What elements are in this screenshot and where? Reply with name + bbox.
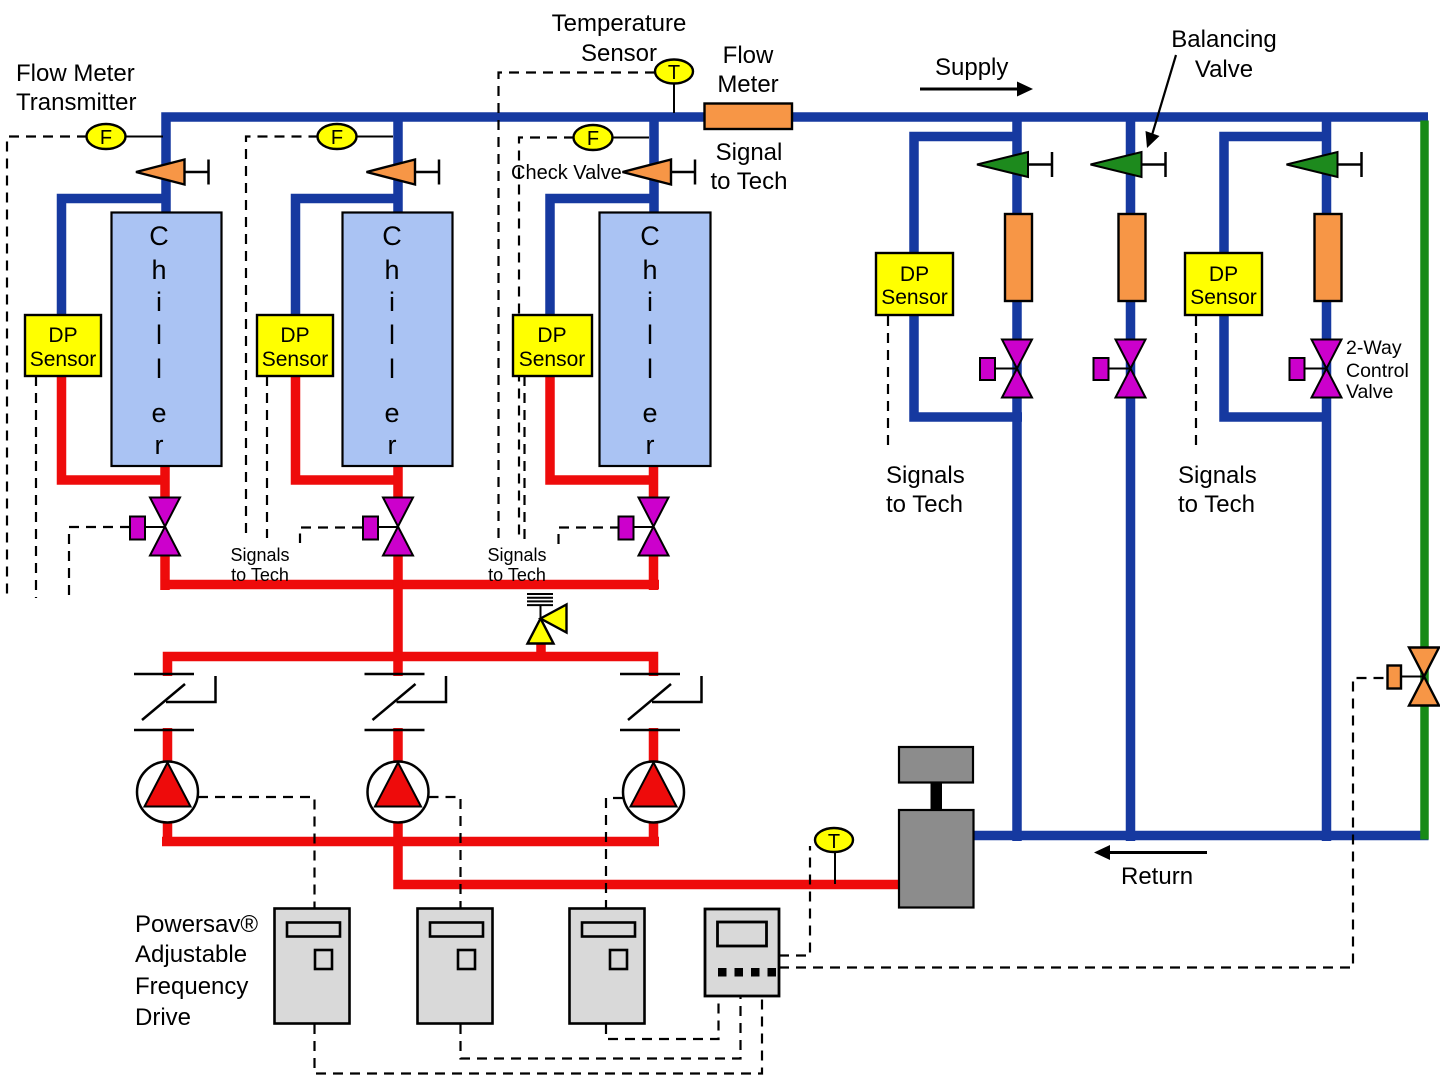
signal wire: AFD 3 to controller dashed xyxy=(606,996,719,1039)
wire: chilled water supply main (blue) with chiller 1 riser xyxy=(166,117,1428,214)
wire: relief valve stub (red) xyxy=(536,639,546,655)
svg-text:h: h xyxy=(151,255,166,285)
wire: chiller 3 DP sensor return drop (red) xyxy=(550,375,656,480)
svg-text:to Tech: to Tech xyxy=(488,565,546,585)
2-way control valve V4 (magenta, loop 1) xyxy=(980,340,1032,398)
svg-text:r: r xyxy=(388,430,397,460)
svg-text:Sensor: Sensor xyxy=(581,40,657,67)
svg-text:Signals: Signals xyxy=(230,545,289,565)
svg-text:C: C xyxy=(640,221,660,251)
check valve CV1 (orange, chiller 1 riser) xyxy=(136,160,209,185)
svg-text:to Tech: to Tech xyxy=(711,168,788,195)
svg-text:l: l xyxy=(647,320,653,350)
wire: valve 1 to upper manifold (red) xyxy=(160,553,170,590)
balancing valve BV3 (orange rect, loop 3) xyxy=(1315,214,1342,301)
supply flow arrow xyxy=(920,82,1033,97)
svg-text:F: F xyxy=(100,127,112,149)
balancing valve pointer arrow xyxy=(1146,55,1177,148)
svg-text:l: l xyxy=(156,354,162,384)
wire: chilled water return main (blue) xyxy=(973,831,1429,841)
signal wire: pump 2 to AFD 2 dashed xyxy=(429,797,461,908)
svg-text:h: h xyxy=(642,255,657,285)
wire: chiller 2 DP sensor return drop (red) xyxy=(296,375,401,480)
svg-text:T: T xyxy=(828,831,840,853)
flex connector FC2 (pump 2 isolation symbol) xyxy=(365,674,447,730)
svg-text:C: C xyxy=(382,221,402,251)
signal wire: flow transmitter F3 dashed xyxy=(519,138,574,537)
svg-text:Drive: Drive xyxy=(135,1004,191,1031)
wire: pump 3 suction stub (red) xyxy=(649,728,659,770)
control valve V1 (magenta, chiller 1 outlet) xyxy=(130,498,180,556)
svg-text:Frequency: Frequency xyxy=(135,973,248,1000)
wire: bypass pipe (green) xyxy=(1420,121,1429,840)
svg-text:Return: Return xyxy=(1121,863,1193,890)
signal wire: pump 1 to AFD 1 dashed xyxy=(198,797,315,908)
signal wire: controller to temperature sensor T2 dashed xyxy=(779,846,810,956)
check valve CV4 (green, loop 1) xyxy=(977,152,1052,177)
svg-text:Temperature: Temperature xyxy=(552,10,687,37)
wire: chiller 2 riser (blue) xyxy=(393,117,403,214)
wire: branch loop 1 vertical (blue) xyxy=(1012,117,1022,841)
AFD 3 (adjustable frequency drive box) xyxy=(570,909,645,1024)
svg-text:T: T xyxy=(668,62,680,84)
AFD 1 (adjustable frequency drive box) xyxy=(275,909,350,1024)
signal wire: right DP sensor 1 dashed xyxy=(887,316,889,448)
svg-text:e: e xyxy=(384,398,399,428)
svg-text:Check Valve: Check Valve xyxy=(511,162,622,184)
wire: DP sensing bypass loop 1 (blue) xyxy=(914,137,1022,418)
svg-text:Valve: Valve xyxy=(1346,381,1393,403)
balancing valve BV1 (orange rect, loop 1) xyxy=(1005,214,1032,301)
DP sensor 2 (yellow box) xyxy=(257,315,333,376)
wire: branch loop 2 vertical (blue) xyxy=(1126,117,1136,841)
chiller 1 (light blue box) xyxy=(112,213,222,467)
svg-text:Adjustable: Adjustable xyxy=(135,941,247,968)
2-way control valve V5 (magenta, loop 2) xyxy=(1094,340,1146,398)
svg-text:Balancing: Balancing xyxy=(1171,26,1276,53)
wire: branch loop 3 vertical (blue) xyxy=(1322,117,1332,841)
2-way control valve V6 (magenta, loop 3) xyxy=(1290,340,1342,398)
svg-text:to Tech: to Tech xyxy=(1178,491,1255,518)
DP sensor 4 (yellow box, loop 1) xyxy=(876,253,953,315)
wire: pump 3 discharge stub (red) xyxy=(649,815,659,842)
svg-text:Signals: Signals xyxy=(487,545,546,565)
svg-text:e: e xyxy=(642,398,657,428)
balancing valve BV2 (orange rect, loop 2) xyxy=(1119,214,1146,301)
temperature sensor T1 (yellow ellipse on supply) xyxy=(655,60,693,114)
control valve V2 (magenta, chiller 2 outlet) xyxy=(363,498,413,556)
hydraulic decoupler / pressure valve (gray assembly) xyxy=(899,747,974,908)
signal wire: valve 3 actuator dashed xyxy=(559,528,621,548)
svg-text:Valve: Valve xyxy=(1195,56,1253,83)
flow transmitter F2 (yellow ellipse) xyxy=(318,124,394,149)
signal wire: AFD 1 to controller dashed xyxy=(315,996,763,1074)
svg-text:DP: DP xyxy=(900,263,929,286)
svg-text:Meter: Meter xyxy=(717,71,778,98)
svg-text:C: C xyxy=(149,221,169,251)
temperature sensor T2 (yellow ellipse on return) xyxy=(815,828,853,884)
svg-text:Flow Meter: Flow Meter xyxy=(16,60,135,87)
signal wire: controller to bypass valve dashed xyxy=(779,678,1386,968)
wire: chiller 1 DP sensor return drop (red) xyxy=(62,375,168,480)
svg-text:l: l xyxy=(647,354,653,384)
svg-text:Sensor: Sensor xyxy=(519,348,586,371)
signal wire: valve 1 actuator dashed xyxy=(69,527,130,598)
pressure relief valve PRV (yellow) with spring xyxy=(527,594,567,644)
svg-text:l: l xyxy=(389,320,395,350)
svg-text:i: i xyxy=(647,287,653,317)
wire: pump discharge manifold (red) xyxy=(162,837,659,847)
check valve CV6 (green, loop 3) xyxy=(1287,152,1362,177)
wire: valve 2 drop through manifolds to pump 2 (red) xyxy=(393,553,403,676)
chiller 1 vertical label xyxy=(149,221,169,460)
check valve CV5 (green, loop 2) xyxy=(1091,152,1166,177)
svg-text:Supply: Supply xyxy=(935,54,1008,81)
svg-text:r: r xyxy=(155,430,164,460)
check valve CV3 (orange, chiller 3 riser) xyxy=(623,160,696,185)
wire: pump 1 discharge stub (red) xyxy=(163,815,173,842)
svg-text:Powersav®: Powersav® xyxy=(135,911,258,938)
signal wire: DP sensor 3 dashed xyxy=(523,376,525,541)
signal wire: flow transmitter F1 dashed xyxy=(7,137,87,598)
wire: pump suction manifold (red) xyxy=(168,657,654,677)
DP sensor 3 (yellow box) xyxy=(513,315,592,376)
bypass control valve V7 (orange, on green pipe) xyxy=(1388,648,1440,706)
svg-text:DP: DP xyxy=(537,324,566,347)
svg-text:Signals: Signals xyxy=(1178,462,1257,489)
svg-text:Control: Control xyxy=(1346,360,1409,382)
wire: pump 2 suction stub (red) xyxy=(393,728,403,770)
svg-text:Sensor: Sensor xyxy=(881,286,948,309)
signal wire: right DP sensor 2 dashed xyxy=(1195,316,1197,450)
signal wire: temperature sensor T1 dashed xyxy=(499,73,656,545)
check valve CV2 (orange, chiller 2 riser) xyxy=(367,160,440,185)
signal wire: DP sensor 2 dashed xyxy=(266,376,268,538)
chiller 3 vertical label xyxy=(640,221,660,460)
pump P3 (circle with red impeller triangle) xyxy=(623,762,684,823)
svg-text:i: i xyxy=(156,287,162,317)
flow transmitter F3 (yellow ellipse) xyxy=(574,125,650,150)
signal wire: pump 3 to AFD 3 dashed xyxy=(606,798,623,908)
DP sensor 5 (yellow box, loop 3) xyxy=(1185,253,1262,315)
flex connector FC3 (pump 3 isolation symbol) xyxy=(620,674,702,730)
flow meter FM1 (orange rect on supply main) xyxy=(705,104,793,130)
AFD 2 (adjustable frequency drive box) xyxy=(418,909,493,1024)
return flow arrow xyxy=(1094,845,1207,860)
svg-text:2-Way: 2-Way xyxy=(1346,337,1402,359)
wire: chiller 2 outlet stub (red) xyxy=(393,464,403,500)
svg-text:to Tech: to Tech xyxy=(231,565,289,585)
chiller 2 (light blue box) xyxy=(343,213,453,467)
wire: chiller 3 DP sensor supply elbow (blue) xyxy=(550,199,656,319)
chiller 2 vertical label xyxy=(382,221,402,460)
svg-text:F: F xyxy=(331,127,343,149)
signal wire: AFD 2 to controller dashed xyxy=(461,996,741,1059)
DP sensor 1 (yellow box) xyxy=(25,315,101,376)
wire: pump 1 suction stub (red) xyxy=(163,728,173,770)
wire: chiller 1 outlet stub (red) xyxy=(160,464,170,500)
AFD 4 / controller (box with display and terminals) xyxy=(705,909,779,996)
wire: chiller 3 riser (blue) xyxy=(649,117,659,214)
svg-text:to Tech: to Tech xyxy=(886,491,963,518)
pump P1 (circle with red impeller triangle) xyxy=(137,762,198,823)
wire: chiller 1 DP sensor supply elbow (blue) xyxy=(62,199,169,319)
signal wire: flow transmitter F2 dashed xyxy=(246,137,319,539)
svg-text:Sensor: Sensor xyxy=(262,348,329,371)
svg-text:e: e xyxy=(151,398,166,428)
control valve V3 (magenta, chiller 3 outlet) xyxy=(619,498,669,556)
chiller 3 (light blue box) xyxy=(600,213,711,467)
signal wire: DP sensor 1 dashed xyxy=(35,376,37,598)
wire: DP sensing bypass loop 3 (blue) xyxy=(1224,137,1331,418)
wire: chiller 3 outlet stub (red) xyxy=(649,464,659,500)
svg-text:Sensor: Sensor xyxy=(1190,286,1257,309)
pump P2 (circle with red impeller triangle) xyxy=(368,762,429,823)
svg-text:DP: DP xyxy=(48,324,77,347)
wire: pump 2 discharge stub (red) xyxy=(393,815,403,842)
svg-text:r: r xyxy=(646,430,655,460)
wire: chiller 2 DP sensor supply elbow (blue) xyxy=(296,199,401,319)
flex connector FC1 (pump 1 isolation symbol) xyxy=(134,674,216,730)
svg-text:Signals: Signals xyxy=(886,462,965,489)
svg-text:F: F xyxy=(587,128,599,150)
svg-text:l: l xyxy=(156,320,162,350)
wire: upper return manifold (red) xyxy=(162,580,659,590)
signal wire: valve 2 actuator dashed xyxy=(300,528,362,544)
svg-text:l: l xyxy=(389,354,395,384)
svg-text:Transmitter: Transmitter xyxy=(16,89,136,116)
svg-text:i: i xyxy=(389,287,395,317)
svg-text:DP: DP xyxy=(280,324,309,347)
wire: discharge drop and return run to decoupler (red) xyxy=(398,841,899,885)
svg-text:Sensor: Sensor xyxy=(30,348,97,371)
svg-text:Flow: Flow xyxy=(723,42,774,69)
svg-text:DP: DP xyxy=(1209,263,1238,286)
svg-text:h: h xyxy=(384,255,399,285)
wire: valve 3 to upper manifold (red) xyxy=(649,553,659,590)
flow transmitter F1 (yellow ellipse) xyxy=(87,124,164,149)
svg-text:Signal: Signal xyxy=(716,139,783,166)
